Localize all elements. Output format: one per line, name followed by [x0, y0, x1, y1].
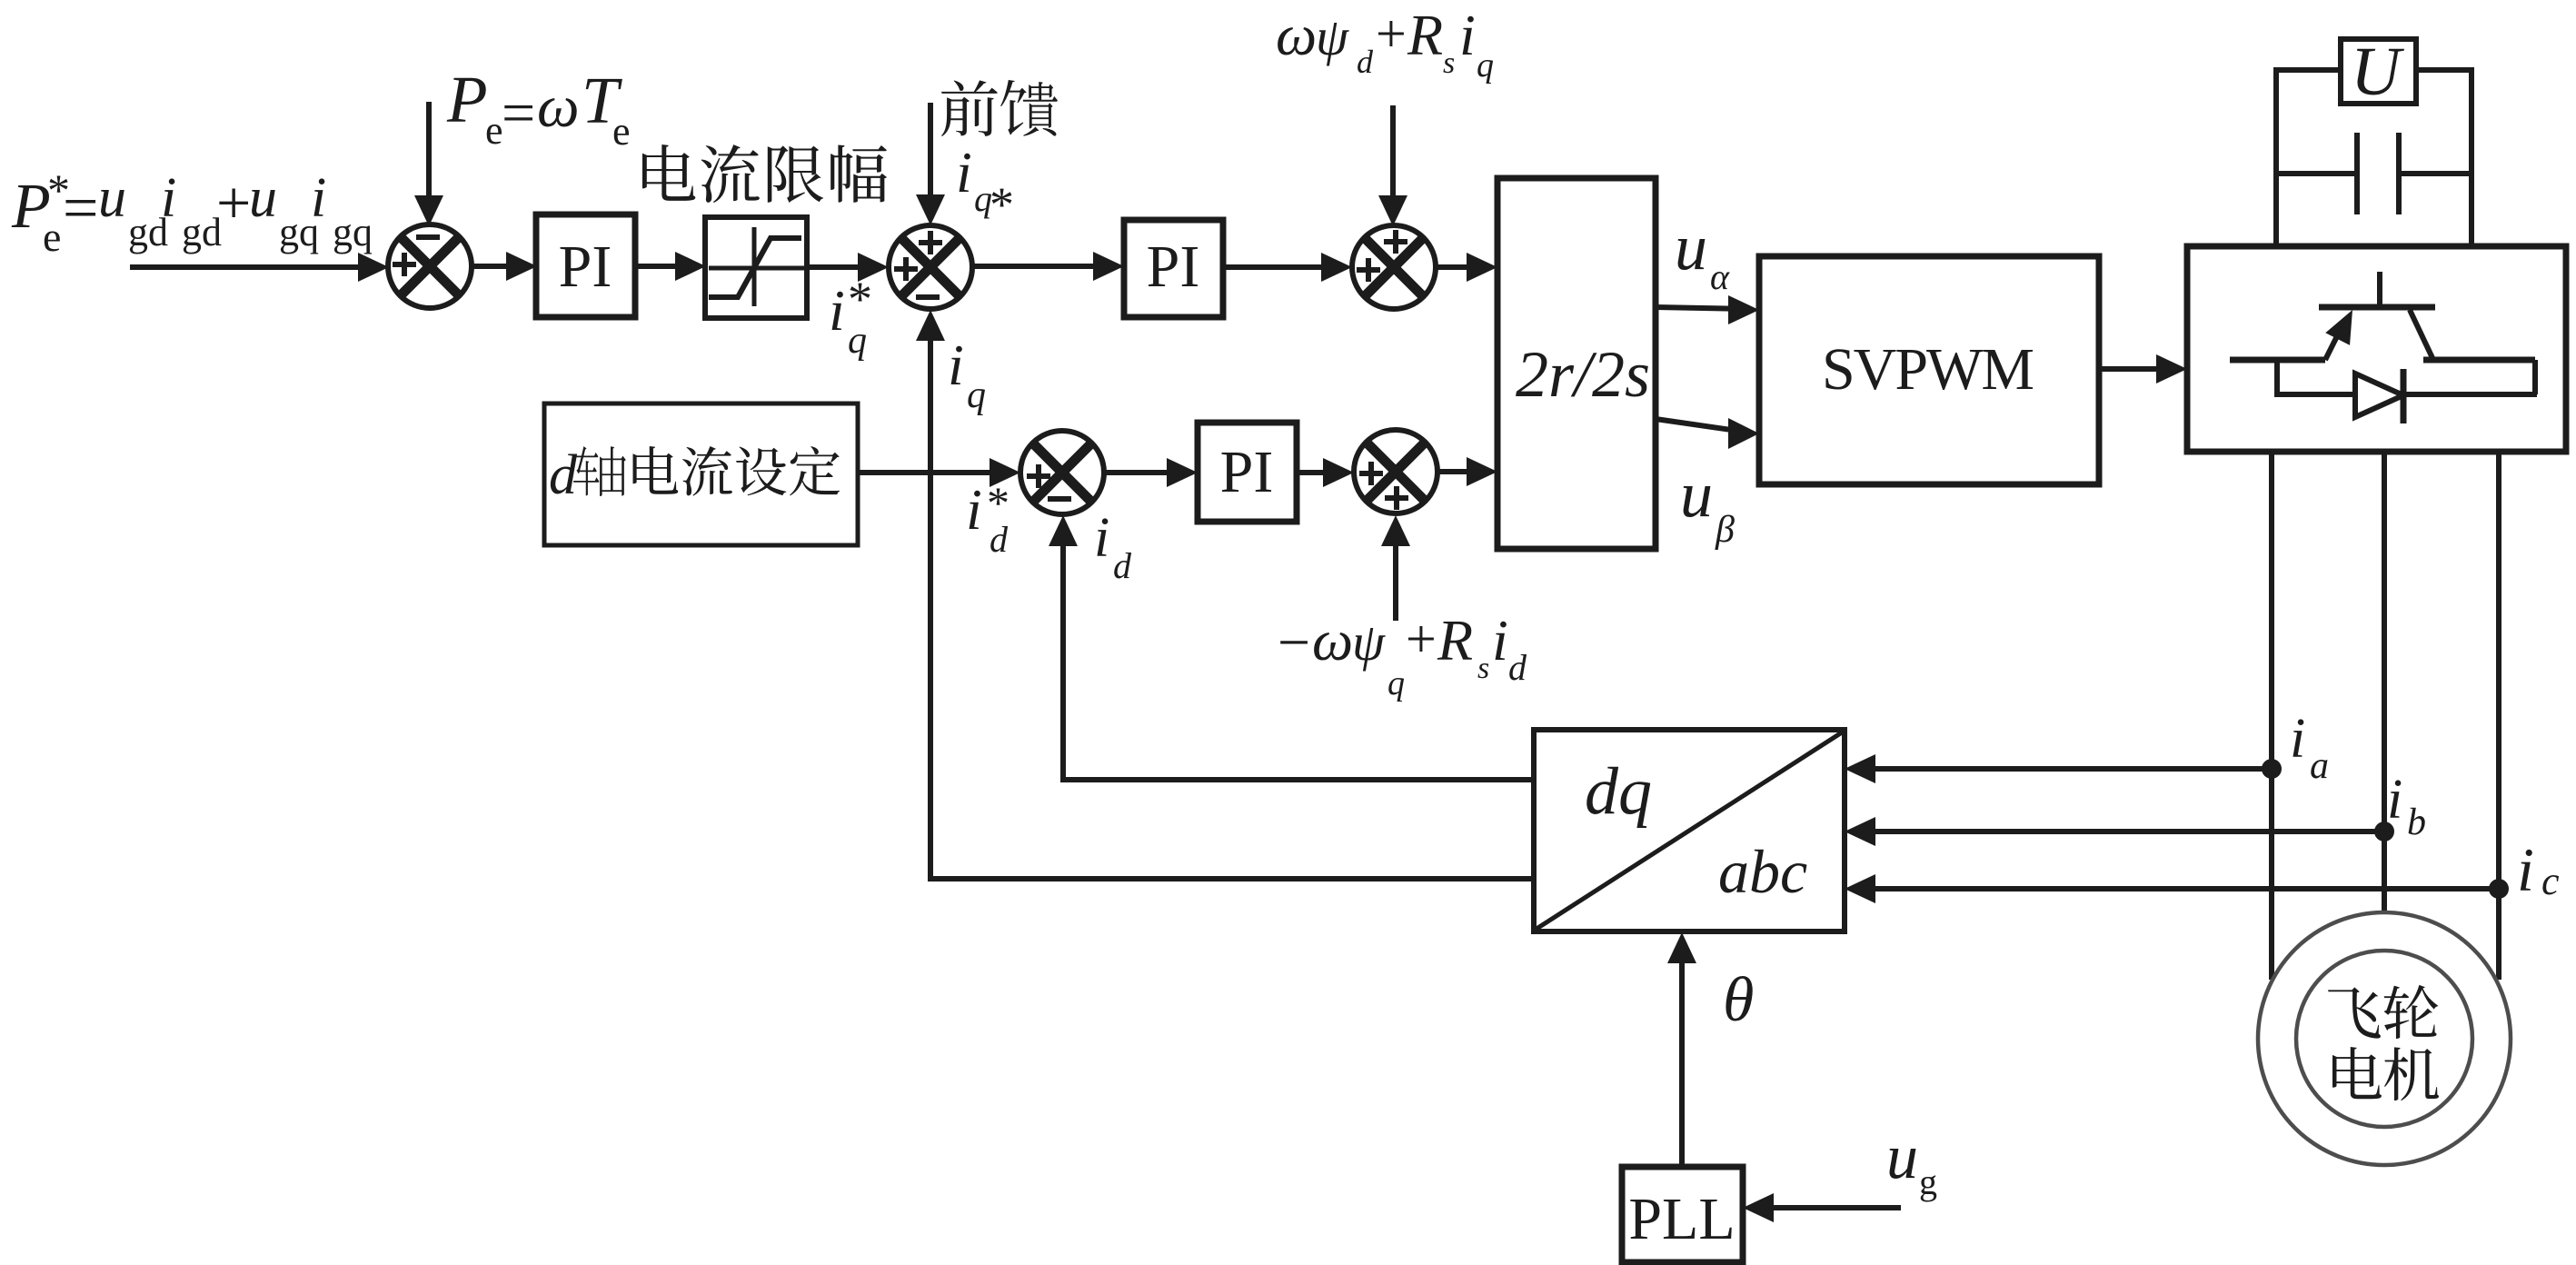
diode freewheel: [2274, 357, 2537, 423]
label dq: [1585, 754, 1652, 829]
label iq feedback: [948, 333, 986, 416]
svg-text:u: u: [1675, 211, 1707, 284]
wire: id feedback up into S4: [1049, 515, 1078, 780]
label ia: [2290, 708, 2329, 787]
svg-text:dq: dq: [1585, 754, 1652, 829]
label abc: [1718, 837, 1807, 906]
svg-text:e: e: [485, 108, 503, 153]
label u-beta: [1680, 458, 1735, 551]
svg-text:e: e: [612, 109, 631, 154]
svg-text:ω: ω: [537, 74, 580, 140]
svg-text:+: +: [1406, 609, 1437, 669]
wire: iq feedback from dq box: [928, 876, 1534, 882]
svg-text:i: i: [948, 333, 964, 397]
wire: d-box to S4: [858, 458, 1020, 487]
svg-text:β: β: [1715, 509, 1735, 551]
svg-text:u: u: [1886, 1122, 1918, 1192]
block SVPWM: [1759, 256, 2099, 484]
svg-text:*: *: [848, 272, 872, 326]
svg-text:u: u: [1680, 458, 1713, 531]
wire: phase b: [2382, 452, 2387, 914]
wire: SVPWM to inverter: [2099, 354, 2187, 383]
wire: u-beta to SVPWM: [1656, 418, 1759, 449]
label iq* feedforward current: [956, 140, 1014, 232]
wire: phase c: [2496, 452, 2501, 980]
svg-text:+: +: [216, 168, 251, 237]
node ib junction dot: [2374, 822, 2394, 842]
label feedforward 前馈: [941, 80, 1058, 136]
block current limiter (saturation): [705, 217, 807, 318]
svg-text:=: =: [502, 80, 535, 146]
wire: S3 to 2r/2s: [1436, 253, 1497, 282]
svg-text:SVPWM: SVPWM: [1822, 336, 2033, 403]
svg-text:i: i: [956, 140, 972, 204]
wire: id feedback from dq box: [1060, 777, 1534, 782]
node ic junction dot: [2489, 879, 2509, 899]
svg-text:PLL: PLL: [1628, 1186, 1735, 1252]
svg-text:c: c: [2541, 859, 2560, 903]
label ic: [2517, 835, 2560, 904]
block 2r/2s transform: [1497, 178, 1656, 549]
block PI1: [536, 214, 635, 317]
label 飞轮 (flywheel): [2328, 985, 2438, 1039]
block inverter: [2187, 246, 2566, 452]
svg-text:2r/2s: 2r/2s: [1516, 338, 1650, 411]
label ib: [2387, 769, 2426, 843]
wire: reference input into summing junction S1: [130, 253, 389, 282]
wire: iq feedback up into S2 from below: [916, 310, 945, 879]
block voltage source U: [2341, 34, 2416, 110]
svg-text:α: α: [1710, 256, 1730, 297]
svg-text:a: a: [2310, 745, 2329, 787]
svg-text:e: e: [43, 214, 61, 260]
svg-text:d: d: [549, 444, 578, 506]
svg-text:R: R: [1407, 3, 1443, 67]
label -wpsiq+Rsid decoupling feed: [1278, 608, 1527, 702]
label theta: [1723, 965, 1754, 1035]
wire: u-alpha to SVPWM: [1656, 295, 1759, 324]
wire: phase a: [2269, 452, 2274, 980]
svg-text:−: −: [1278, 610, 1310, 674]
svg-text:ω: ω: [1312, 608, 1353, 672]
wire: decoupling feed down into S3: [1378, 105, 1407, 226]
summing junction S3: [1352, 225, 1436, 309]
wire: S4 to PI3: [1104, 458, 1198, 487]
svg-text:i: i: [1459, 3, 1476, 67]
wire: ib sense to dq box: [1845, 817, 2384, 846]
wire: PI1 to current limiter: [635, 252, 706, 281]
summing junction S1: [388, 224, 472, 308]
svg-text:q: q: [1387, 664, 1405, 702]
svg-text:PI: PI: [1220, 439, 1274, 505]
wire: S1 to PI1: [472, 252, 537, 281]
svg-text:PI: PI: [1147, 234, 1200, 300]
label Pe=wTe feed: [446, 63, 631, 154]
wire: PI3 to S5: [1297, 458, 1354, 487]
wire: theta from PLL into dq box: [1667, 932, 1696, 1167]
svg-text:i: i: [161, 167, 176, 229]
svg-text:gq: gq: [333, 210, 373, 254]
wire: DC link right rail: [2416, 67, 2474, 246]
label wpsid+Rsiq decoupling feed: [1276, 3, 1494, 85]
block dq/abc transform: [1534, 730, 1845, 931]
label id feedback: [1094, 507, 1132, 586]
svg-text:q: q: [967, 374, 986, 416]
svg-text:q: q: [1477, 46, 1494, 85]
svg-text:+: +: [1376, 4, 1407, 64]
svg-text:abc: abc: [1718, 837, 1807, 906]
wire: S5 to 2r/2s: [1437, 457, 1497, 486]
svg-text:d: d: [1357, 44, 1374, 80]
wire: ic sense to dq box: [1845, 874, 2499, 903]
transistor IGBT symbol: [2230, 272, 2535, 360]
label 电机 (motor): [2332, 1047, 2439, 1101]
label i*q (limited q current ref): [829, 272, 872, 362]
svg-text:PI: PI: [559, 234, 612, 300]
svg-text:*: *: [990, 177, 1014, 232]
svg-text:u: u: [98, 167, 126, 229]
svg-text:s: s: [1443, 46, 1455, 80]
svg-text:b: b: [2407, 802, 2426, 843]
wire: limiter to S2 with label iq*ref: [807, 253, 889, 282]
label ug: [1886, 1122, 1937, 1202]
wire: DC link left rail: [2273, 67, 2341, 246]
svg-text:R: R: [1437, 608, 1473, 672]
svg-text:s: s: [1477, 652, 1489, 685]
wire: ia sense to dq box: [1845, 754, 2272, 783]
summing junction S5: [1354, 430, 1437, 513]
block PLL: [1622, 1167, 1743, 1262]
svg-text:θ: θ: [1723, 965, 1754, 1035]
summing junction S2: [889, 225, 972, 309]
svg-text:=: =: [63, 174, 98, 244]
summing junction S4: [1020, 431, 1104, 514]
wire: ug into PLL: [1743, 1193, 1901, 1222]
label d轴电流设定: [549, 444, 840, 506]
svg-text:i: i: [829, 278, 845, 343]
block d-axis current setpoint box 电流设定: [544, 403, 858, 545]
label i*d reference: [966, 477, 1010, 560]
svg-text:i: i: [311, 167, 326, 229]
svg-text:U: U: [2351, 34, 2404, 110]
svg-text:d: d: [1113, 545, 1132, 586]
svg-text:q: q: [848, 320, 867, 362]
label u-alpha: [1675, 211, 1730, 297]
svg-text:u: u: [249, 167, 277, 229]
svg-text:g: g: [1919, 1161, 1937, 1202]
wire: Pe feed down into S1: [414, 102, 443, 226]
label current-limiter 电流限幅: [642, 144, 887, 203]
node P*e formula: Pe*=ugd igd+ugq igq: [11, 164, 373, 260]
wire: PI2 to S3: [1223, 253, 1352, 282]
wire: feedforward feed down into S2: [916, 103, 945, 225]
block PI3: [1198, 423, 1297, 522]
svg-text:i: i: [1094, 507, 1109, 569]
svg-text:d: d: [1508, 647, 1527, 688]
motor flywheel machine circles: [2258, 912, 2511, 1165]
node ia junction dot: [2262, 759, 2282, 779]
svg-text:ψ: ψ: [1316, 7, 1349, 66]
capacitor C dc-link: [2276, 133, 2472, 214]
svg-text:i: i: [1492, 608, 1508, 672]
svg-text:i: i: [966, 477, 982, 542]
wire: decoupling feed up into S5: [1381, 515, 1410, 621]
svg-text:d: d: [990, 519, 1009, 560]
svg-text:i: i: [2517, 835, 2534, 904]
svg-text:i: i: [2387, 769, 2402, 831]
svg-text:ψ: ψ: [1352, 613, 1386, 672]
svg-text:i: i: [2290, 708, 2305, 770]
block PI2: [1124, 220, 1223, 317]
svg-text:ω: ω: [1276, 3, 1317, 67]
svg-text:P: P: [446, 63, 488, 136]
wire: S2 to PI2: [972, 252, 1124, 281]
